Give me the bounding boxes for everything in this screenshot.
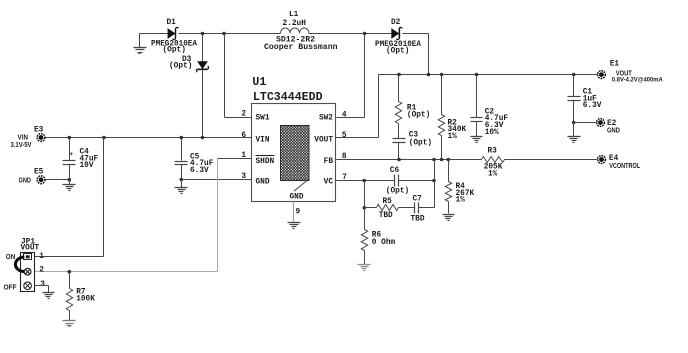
wire E5 to C4 <box>46 179 70 181</box>
svg-text:VIN: VIN <box>256 136 270 144</box>
capacitor C3 <box>393 138 406 140</box>
diode D3 <box>202 34 204 62</box>
svg-text:1: 1 <box>39 253 44 261</box>
node C1 tap <box>572 73 576 77</box>
wire <box>140 33 168 35</box>
wire SW1 vertical <box>224 34 226 118</box>
node R5 branch <box>362 179 366 183</box>
node C4 bottom <box>68 178 72 182</box>
resistor R6 <box>364 208 366 230</box>
wire C6 to FB branch <box>399 180 435 182</box>
capacitor C4 <box>69 138 71 161</box>
svg-text:2: 2 <box>241 111 246 119</box>
svg-text:(Opt): (Opt) <box>169 62 192 70</box>
svg-text:0 Ohm: 0 Ohm <box>372 239 396 247</box>
svg-text:OFF: OFF <box>4 283 18 292</box>
svg-text:ON: ON <box>6 252 16 261</box>
svg-text:6.3V: 6.3V <box>190 167 209 175</box>
ground (C5) <box>181 180 183 188</box>
svg-text:SW1: SW1 <box>256 115 270 123</box>
ground (C4) <box>69 180 71 185</box>
svg-text:E3: E3 <box>34 127 44 135</box>
svg-text:9: 9 <box>296 209 301 217</box>
ground (C2) <box>471 136 483 138</box>
inductor L1 <box>281 28 310 33</box>
capacitor C7 <box>414 203 416 214</box>
node C5 bottom <box>180 178 184 182</box>
svg-text:2: 2 <box>39 267 44 275</box>
node R7 tap <box>68 270 72 274</box>
ground (D1 anode) <box>139 34 141 48</box>
diode D2 <box>391 28 399 39</box>
svg-text:4: 4 <box>342 111 347 119</box>
wire <box>309 33 392 35</box>
node C1 bottom <box>572 121 576 125</box>
svg-text:2.2uH: 2.2uH <box>283 20 307 28</box>
svg-text:10V: 10V <box>80 162 94 170</box>
svg-text:TBD: TBD <box>379 212 393 220</box>
svg-text:TBD: TBD <box>411 216 425 224</box>
node R2 tap <box>440 73 444 77</box>
capacitor C2 <box>476 75 478 118</box>
svg-text:U1: U1 <box>252 76 266 89</box>
wire GND pin3 <box>182 179 252 181</box>
resistor R1 <box>398 75 400 102</box>
pin 9 stub <box>293 202 295 223</box>
terminal E3 VIN <box>37 134 45 142</box>
resistor R7 <box>69 272 71 289</box>
wire FB pin8 <box>336 159 482 161</box>
svg-text:(Opt): (Opt) <box>163 47 186 55</box>
svg-text:Cooper Bussmann: Cooper Bussmann <box>264 44 338 52</box>
ground (C1) <box>573 123 575 137</box>
wire SW2 vertical <box>364 34 366 118</box>
capacitor C5 <box>181 138 183 161</box>
svg-text:R5: R5 <box>383 198 393 206</box>
terminal E2 GND <box>597 119 605 127</box>
svg-text:LTC3444EDD: LTC3444EDD <box>253 91 323 104</box>
node JP1 tap <box>102 136 106 140</box>
svg-text:0.8V-4.2V@400mA: 0.8V-4.2V@400mA <box>612 76 663 83</box>
svg-text:L1: L1 <box>289 11 299 19</box>
terminal E4 VCONTROL <box>598 156 606 164</box>
svg-text:FB: FB <box>324 158 334 166</box>
svg-text:+: + <box>69 151 73 158</box>
svg-text:C7: C7 <box>413 195 423 203</box>
node R2 bottom <box>440 158 444 162</box>
JP1 pin 3 <box>24 282 32 290</box>
node C4 tap <box>68 136 72 140</box>
wire R5 to C7 <box>399 207 415 209</box>
svg-text:1%: 1% <box>448 133 458 141</box>
node SW1 tap <box>222 32 226 36</box>
wire JP1 pin1 to VIN <box>103 138 105 257</box>
diode D1 <box>168 28 176 39</box>
resistor R5 <box>365 207 377 209</box>
svg-text:(Opt): (Opt) <box>386 48 409 56</box>
svg-text:VOUT: VOUT <box>314 136 333 144</box>
wire SW1 rail <box>179 33 281 35</box>
node C5 tap <box>180 136 184 140</box>
node C6/C7 junction <box>432 179 436 183</box>
resistor R3 <box>482 157 505 163</box>
svg-text:D2: D2 <box>391 19 401 27</box>
wire D2 to VOUT rail <box>403 33 429 35</box>
JP1 jumper ON arc <box>15 257 24 272</box>
svg-text:VC: VC <box>324 178 334 186</box>
capacitor C6 <box>394 175 396 187</box>
svg-text:(Opt): (Opt) <box>409 139 432 147</box>
wire VOUT rail <box>379 74 598 76</box>
svg-text:3.1V-5V: 3.1V-5V <box>11 140 32 149</box>
svg-text:3: 3 <box>241 173 246 181</box>
node R5 left <box>362 206 366 210</box>
wire SHDN to JP1 pin2 <box>217 159 219 272</box>
svg-text:E5: E5 <box>34 169 44 177</box>
svg-text:GND: GND <box>290 193 304 201</box>
svg-text:5: 5 <box>342 132 347 140</box>
node C2 tap <box>475 73 479 77</box>
node R1 tap <box>397 73 401 77</box>
svg-text:GND: GND <box>19 176 32 185</box>
terminal E5 GND <box>37 176 45 184</box>
wire JP1 pin3 to ground <box>35 285 49 287</box>
ground (JP1 pin3) <box>43 292 55 294</box>
svg-text:E1: E1 <box>610 60 620 68</box>
svg-text:R3: R3 <box>488 147 498 155</box>
wire FB-C6-C7 vertical <box>434 160 436 208</box>
svg-text:C6: C6 <box>390 167 400 175</box>
node D3 tap <box>201 32 205 36</box>
wire VC pin7 <box>336 180 395 182</box>
JP1 pin 2 <box>24 268 31 275</box>
node SW2/L1 junction <box>363 32 367 36</box>
IC U1 LTC3444EDD <box>252 104 336 202</box>
node C3 bottom <box>397 158 401 162</box>
svg-text:GND: GND <box>256 178 270 186</box>
svg-text:1%: 1% <box>488 171 498 179</box>
node D2 junction <box>427 73 431 77</box>
ground (pin 9) <box>288 222 301 224</box>
JP1 pin 1 <box>24 254 32 260</box>
ground (R4) <box>443 214 455 216</box>
ground (R6) <box>358 264 371 266</box>
node R4 top <box>447 158 451 162</box>
svg-text:6.3V: 6.3V <box>583 102 602 110</box>
resistor R2 <box>441 75 443 115</box>
ground (R7) <box>63 320 76 322</box>
wire R5 branch vertical <box>364 181 366 208</box>
svg-text:(Opt): (Opt) <box>407 112 430 120</box>
svg-text:6: 6 <box>241 132 246 140</box>
svg-text:VCONTROL: VCONTROL <box>609 161 640 170</box>
wire D3 to VIN rail <box>202 70 204 138</box>
U1 exposed pad <box>281 126 310 181</box>
terminal E1 VOUT <box>598 71 606 79</box>
capacitor C1 <box>573 75 575 97</box>
wire VIN rail <box>46 137 252 139</box>
wire to E2 <box>574 122 597 124</box>
svg-text:VOUT: VOUT <box>21 245 40 253</box>
wire C7 to junction <box>419 207 435 209</box>
wire pad to GND label <box>294 181 307 192</box>
svg-text:10%: 10% <box>485 129 499 137</box>
svg-text:100K: 100K <box>76 295 95 303</box>
wire SHDN pin1 <box>218 158 252 160</box>
svg-text:(Opt): (Opt) <box>386 187 409 195</box>
wire R3 to E4 <box>505 159 598 161</box>
wire VOUT pin5 <box>336 137 379 139</box>
svg-text:SHDN: SHDN <box>256 158 275 166</box>
svg-text:D1: D1 <box>167 19 177 27</box>
svg-text:GND: GND <box>607 126 620 135</box>
node D3 junction <box>201 136 205 140</box>
resistor R4 <box>448 160 450 182</box>
svg-text:1%: 1% <box>456 197 466 205</box>
node C6 branch <box>432 158 436 162</box>
svg-text:SW2: SW2 <box>319 115 333 123</box>
